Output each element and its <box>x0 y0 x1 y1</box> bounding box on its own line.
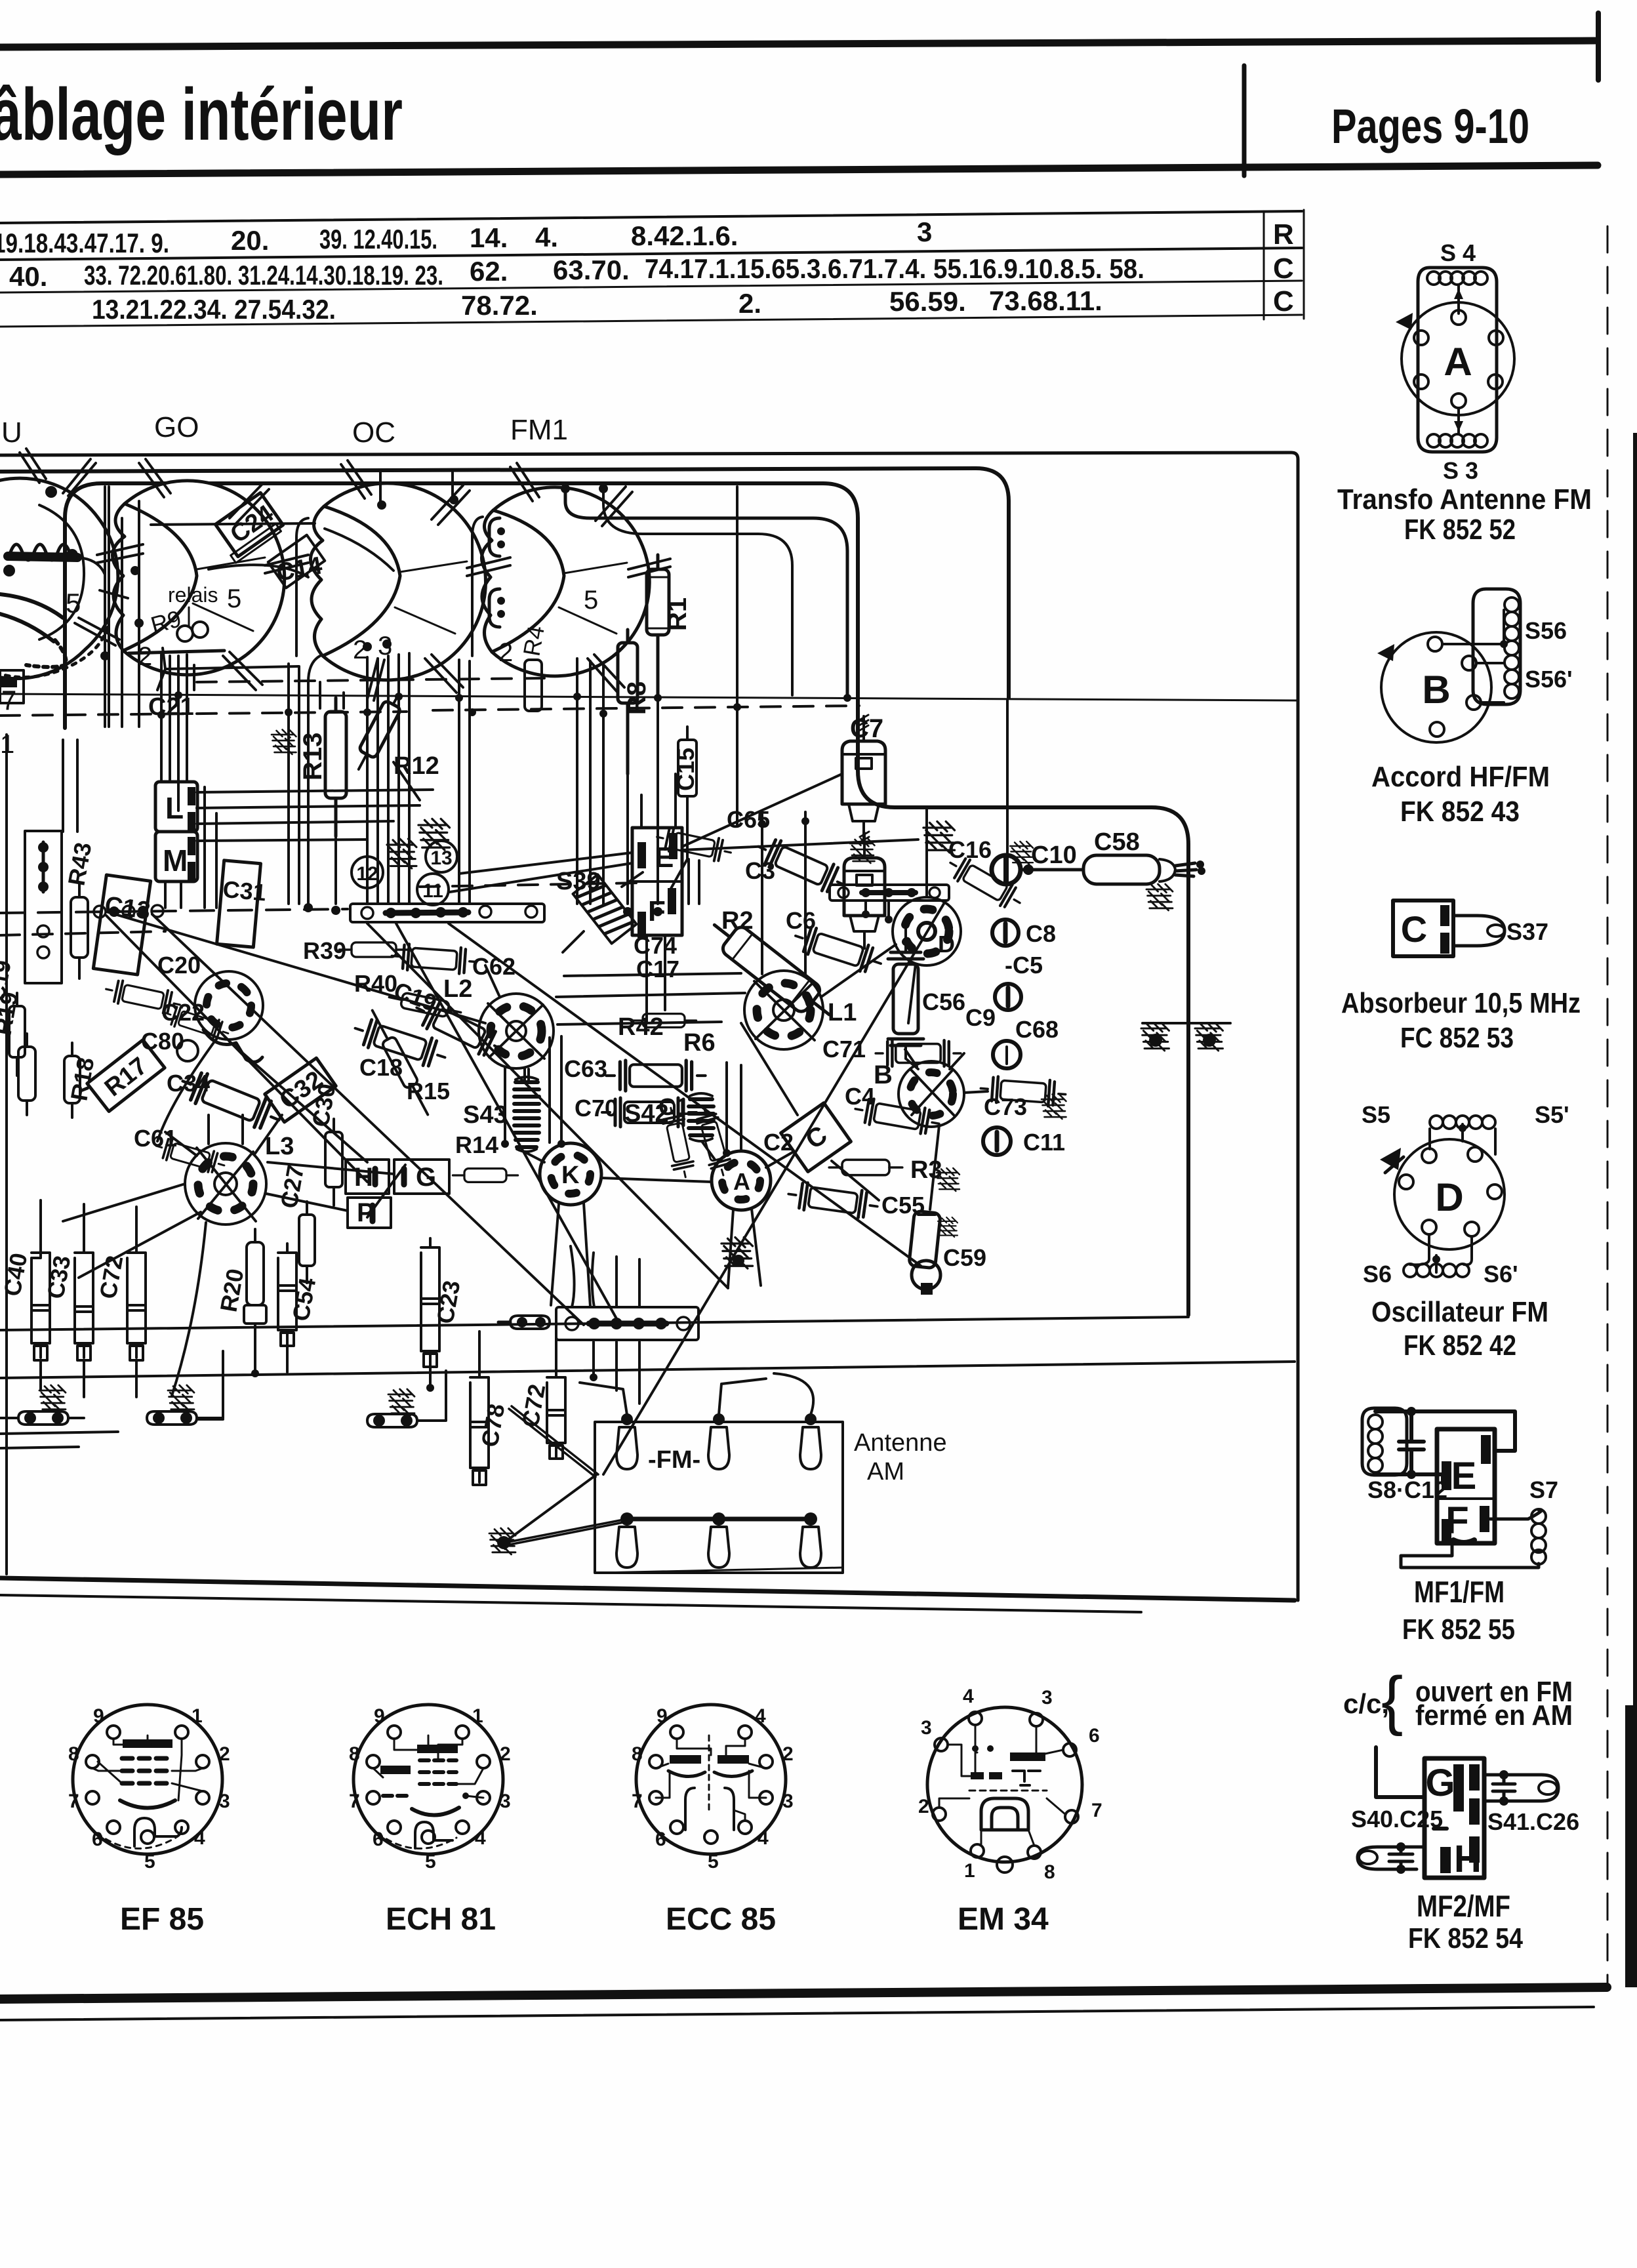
svg-text:62.: 62. <box>470 256 508 287</box>
svg-text:2: 2 <box>498 638 513 667</box>
resistor R18 <box>64 1043 80 1118</box>
svg-text:-C5: -C5 <box>1005 952 1043 979</box>
svg-text:EM 34: EM 34 <box>958 1902 1049 1937</box>
wire lugs row <box>0 1360 136 1418</box>
resistor R20 <box>244 1229 266 1337</box>
ground lug 2 <box>147 1385 197 1425</box>
svg-text:4: 4 <box>758 1827 769 1849</box>
capacitor C78 <box>470 1368 489 1485</box>
svg-text:S40.C25: S40.C25 <box>1351 1806 1443 1833</box>
svg-text:3: 3 <box>500 1791 511 1812</box>
svg-text:11: 11 <box>422 880 443 902</box>
svg-text:2: 2 <box>918 1796 929 1817</box>
svg-text:33. 72.20.61.80. 31.24.14.30.1: 33. 72.20.61.80. 31.24.14.30.18.19. 23. <box>84 260 443 291</box>
selector box L/M <box>155 782 197 881</box>
left terminal board <box>25 831 62 983</box>
capacitor C30 <box>325 1119 342 1205</box>
S3 center tap <box>1457 408 1460 433</box>
svg-text:S41.C26: S41.C26 <box>1487 1808 1579 1835</box>
dashed row mid <box>420 883 643 887</box>
chassis dashed line A <box>197 678 544 682</box>
svg-text:C10: C10 <box>1031 841 1077 869</box>
capacitor C34 <box>177 1066 285 1135</box>
MF2 left lead <box>1358 1847 1425 1869</box>
svg-text:ECC 85: ECC 85 <box>666 1902 776 1937</box>
left strip holes <box>94 905 163 918</box>
wire OC left drop <box>308 656 320 904</box>
wire R1 lead down <box>657 697 659 904</box>
svg-text:14.: 14. <box>470 222 508 253</box>
svg-text:8.42.1.6.: 8.42.1.6. <box>631 220 738 251</box>
table RCC column lines <box>1263 211 1265 319</box>
svg-text:FK 852 54: FK 852 54 <box>1408 1922 1523 1954</box>
pins of D <box>1399 1147 1502 1236</box>
diagonal L2 fan <box>106 912 485 1162</box>
wire FM1 right drops <box>577 658 603 905</box>
capacitor C59 <box>909 1211 941 1295</box>
svg-text:R13: R13 <box>298 733 327 780</box>
socket L3 <box>185 1143 266 1225</box>
wire E drops <box>647 935 665 1023</box>
U inner bar <box>0 678 17 687</box>
svg-text:19.18.43.47.17. 9.: 19.18.43.47.17. 9. <box>0 228 169 258</box>
table row 1 numbers <box>0 216 932 258</box>
svg-text:R: R <box>1273 218 1294 251</box>
resistor R3 <box>829 1160 902 1175</box>
hatch right of E box <box>923 822 955 853</box>
svg-text:L2: L2 <box>443 975 472 1003</box>
antenna plug 3 <box>800 1413 821 1469</box>
resistor R19 <box>18 1034 35 1115</box>
svg-text:20.: 20. <box>231 225 269 256</box>
svg-text:3: 3 <box>219 1791 230 1812</box>
svg-text:C70: C70 <box>575 1095 618 1122</box>
coil S6 bottom of D <box>1404 1264 1469 1277</box>
capacitor C7 electrolytic <box>842 715 885 842</box>
svg-text:relais: relais <box>168 583 218 607</box>
wire C15 lead down <box>686 813 689 859</box>
pages label <box>1331 99 1529 153</box>
svg-text:9: 9 <box>374 1705 385 1727</box>
B lower pin lead <box>1481 701 1504 704</box>
wire antenna double feeder <box>509 1406 598 1477</box>
wire C21 tick <box>193 665 195 690</box>
svg-text:R8: R8 <box>622 681 651 715</box>
wire band drop x1124 <box>736 487 738 825</box>
circled 13 <box>426 841 457 872</box>
ground lug 3 <box>367 1389 417 1427</box>
svg-text:56.59.: 56.59. <box>889 286 966 317</box>
U dotted chain <box>26 640 66 667</box>
U extra paddles <box>0 449 128 682</box>
hatch below R3 <box>937 1168 960 1191</box>
svg-text:{: { <box>1381 1663 1403 1737</box>
absorber C box <box>1393 901 1453 956</box>
antenna mid bar <box>627 1517 811 1522</box>
svg-text:S7: S7 <box>1529 1476 1558 1503</box>
wire D to C56 <box>908 964 916 1023</box>
tuning section GO rotor <box>112 459 308 690</box>
wire L2 to S43 <box>523 1068 526 1080</box>
table line 3 <box>0 281 1302 293</box>
wire B to C59 <box>930 1125 939 1209</box>
wire LM risers <box>205 787 216 908</box>
svg-text:EF 85: EF 85 <box>120 1902 204 1937</box>
capacitor C20 <box>104 978 182 1016</box>
svg-text:3: 3 <box>1041 1687 1053 1709</box>
module B frame <box>1473 589 1520 704</box>
wire A riser <box>727 1063 741 1152</box>
capacitor C58 <box>1021 855 1205 884</box>
pins of B <box>1428 637 1481 737</box>
svg-text:S8·C12: S8·C12 <box>1367 1476 1447 1503</box>
wire B to C73 <box>964 1091 988 1093</box>
U hub dots <box>3 565 15 577</box>
svg-text:39. 12.40.15.: 39. 12.40.15. <box>319 224 437 254</box>
absorber lead loop S37 <box>1453 916 1505 946</box>
hatch under C58 <box>1146 884 1173 910</box>
bottom thick rule <box>0 1987 1607 1999</box>
svg-text:S5: S5 <box>1362 1101 1390 1128</box>
band second line <box>0 468 1009 698</box>
wire L2 drops <box>505 1068 529 1143</box>
label R17 <box>87 1040 165 1111</box>
junction dots <box>100 484 910 1392</box>
chassis line y2088 <box>0 1362 1295 1378</box>
capacitor C10 feedthrough <box>992 855 1021 884</box>
hatch under C7 <box>850 839 875 864</box>
wire L3 to C61 <box>165 1115 282 1156</box>
wire U coil tail <box>77 557 105 575</box>
svg-text:FK 852 55: FK 852 55 <box>1402 1613 1515 1646</box>
band top line + diagram right border <box>0 453 1298 1600</box>
capacitor C62 <box>391 943 477 975</box>
table line 2 <box>0 248 1302 260</box>
svg-text:Accord HF/FM: Accord HF/FM <box>1371 761 1550 793</box>
capacitor C65 <box>655 826 733 864</box>
bottom thin rule <box>0 2007 1594 2020</box>
svg-text:R40: R40 <box>354 970 397 997</box>
svg-text:4.: 4. <box>535 222 558 253</box>
svg-text:Antenne: Antenne <box>854 1429 947 1457</box>
svg-text:13.21.22.34. 27.54.32.: 13.21.22.34. 27.54.32. <box>92 294 336 325</box>
svg-text:1: 1 <box>0 730 14 759</box>
wire C40 riser <box>41 1200 136 1244</box>
resistor R43 <box>71 884 88 979</box>
socket L2 <box>479 994 554 1068</box>
socket D <box>893 897 961 965</box>
resistor R42 <box>631 1014 696 1028</box>
svg-text:U: U <box>1 416 22 449</box>
svg-text:8: 8 <box>1044 1861 1055 1883</box>
svg-text:âblage intérieur: âblage intérieur <box>0 73 403 155</box>
svg-text:R14: R14 <box>455 1131 498 1158</box>
right column dashed border <box>1607 226 1609 1987</box>
svg-text:ECH 81: ECH 81 <box>386 1902 496 1937</box>
svg-text:C8: C8 <box>1026 920 1056 947</box>
capacitor C72b <box>547 1368 565 1459</box>
arrow A <box>1396 313 1413 330</box>
svg-text:5: 5 <box>227 584 241 613</box>
svg-text:C58: C58 <box>1094 828 1140 856</box>
chassis bottom thin line <box>0 1595 1141 1612</box>
svg-text:C17: C17 <box>636 956 679 982</box>
svg-text:B: B <box>874 1061 893 1089</box>
wire B risers <box>905 1049 964 1069</box>
diagonal D strip to antenna <box>603 901 946 1474</box>
svg-text:OC: OC <box>352 416 395 449</box>
capacitor C19 left <box>9 993 25 1076</box>
U section coil lead <box>8 556 77 557</box>
wire OC hook <box>296 518 308 656</box>
svg-text:63.70.: 63.70. <box>553 254 630 285</box>
coil S43 <box>514 1077 539 1152</box>
MF2 right capacitor <box>1493 1775 1515 1801</box>
antenna plug 1 <box>616 1413 637 1469</box>
svg-text:R3: R3 <box>910 1156 942 1184</box>
wire R42 runs <box>556 973 745 1024</box>
tube socket EM34 <box>918 1686 1102 1937</box>
wire relais line <box>209 565 308 577</box>
wire band drop x860 corner <box>565 487 847 695</box>
svg-text:S 4: S 4 <box>1440 239 1476 266</box>
box P <box>348 1198 391 1228</box>
svg-text:6: 6 <box>655 1829 666 1850</box>
wire K to A <box>601 1178 712 1182</box>
svg-text:74.17.1.15.65.3.6.71.7.4. 55.1: 74.17.1.15.65.3.6.71.7.4. 55.16.9.10.8.5… <box>645 253 1144 284</box>
wire top drop x580 <box>380 471 453 505</box>
tube socket ECH81 <box>349 1705 511 1937</box>
svg-text:FC 852 53: FC 852 53 <box>1400 1022 1514 1054</box>
wire OC drop bundle <box>367 653 409 904</box>
svg-text:AM: AM <box>867 1458 904 1486</box>
wire mid horizontals above LM <box>197 790 433 841</box>
svg-text:78.72.: 78.72. <box>461 290 538 321</box>
capacitor C11 ring <box>983 1127 1011 1155</box>
resistor R12 tilted <box>350 690 407 774</box>
svg-text:S6': S6' <box>1484 1261 1518 1287</box>
svg-text:FK 852 52: FK 852 52 <box>1404 514 1516 546</box>
wire S39 leads <box>563 872 643 952</box>
hatch right of C73 <box>1041 1095 1066 1120</box>
svg-text:FK 852 43: FK 852 43 <box>1400 796 1520 828</box>
chassis dashed line B <box>0 712 407 716</box>
circled 11 <box>417 874 449 905</box>
MF1 coil <box>1368 1415 1383 1472</box>
U wire left thick <box>0 594 63 641</box>
wire K drops <box>551 1203 590 1306</box>
svg-text:C7: C7 <box>850 714 883 743</box>
wire left edge long drop <box>5 735 8 1574</box>
capacitor C16 <box>944 852 1026 914</box>
wire connector strip drops <box>594 1342 639 1404</box>
svg-text:4: 4 <box>755 1705 766 1727</box>
strip D near socket <box>830 885 949 901</box>
svg-text:S6: S6 <box>1363 1261 1392 1287</box>
wire lug row right <box>197 1371 446 1421</box>
coil S3 <box>1427 434 1487 447</box>
svg-text:C71: C71 <box>822 1036 866 1063</box>
capacitor C9 ring <box>995 984 1021 1010</box>
wire E right run <box>682 840 918 850</box>
wire R12 lead <box>394 762 420 800</box>
svg-text:MF2/MF: MF2/MF <box>1417 1889 1510 1923</box>
svg-text:5: 5 <box>708 1851 719 1873</box>
capacitor C24 plate <box>211 493 285 563</box>
GO line under <box>129 651 224 653</box>
MF1 right coil wire <box>1401 1510 1541 1568</box>
socket K <box>540 1143 601 1205</box>
socket AM converter <box>195 971 263 1062</box>
wire R8 lead down <box>626 774 629 904</box>
hatch near 12/13 <box>387 839 416 868</box>
wire A drops <box>728 1209 761 1287</box>
hatch near C59 <box>938 1217 958 1237</box>
capacitor C68 ring <box>993 1041 1021 1068</box>
wire C15 lead <box>669 859 687 892</box>
resistor R40 <box>388 990 462 1020</box>
chassis bottom thick line <box>0 1578 1295 1600</box>
svg-text:C: C <box>1273 285 1294 317</box>
svg-text:5: 5 <box>584 586 598 615</box>
OC contact dots <box>363 642 372 651</box>
capacitor C33 <box>75 1244 93 1360</box>
svg-text:R15: R15 <box>407 1078 450 1104</box>
wire left outline drop <box>105 487 109 727</box>
box E/F <box>632 828 682 938</box>
capacitor C55 <box>786 1181 879 1220</box>
pins of A <box>1414 310 1503 408</box>
svg-text:S56': S56' <box>1525 666 1573 693</box>
capacitor C54 <box>278 1244 296 1346</box>
svg-text:6: 6 <box>1089 1725 1100 1747</box>
capacitor C70 <box>602 1098 697 1127</box>
wire G to L3 <box>266 1162 394 1211</box>
strip feeder curves <box>571 1246 639 1307</box>
wire left box <box>0 670 24 703</box>
capacitor electrolytic 2 <box>844 832 885 948</box>
svg-text:G: G <box>1425 1762 1455 1804</box>
arrow D <box>1380 1148 1401 1170</box>
svg-text:6: 6 <box>373 1829 384 1850</box>
wire C62 to L2 <box>485 965 500 997</box>
second rule <box>0 165 1598 174</box>
coil S4 <box>1427 272 1487 285</box>
circled 12 <box>352 857 383 888</box>
central terminal strip <box>350 904 544 922</box>
capacitor C71 <box>876 1040 961 1066</box>
svg-text:40.: 40. <box>9 261 47 292</box>
svg-text:8: 8 <box>349 1743 360 1765</box>
svg-text:C59: C59 <box>943 1244 986 1271</box>
capacitor C19 right <box>411 995 508 1063</box>
wire mid risers x1050 <box>689 859 699 904</box>
table top line <box>0 211 1302 223</box>
svg-text:13: 13 <box>430 847 452 869</box>
resistor R8 vertical <box>618 630 651 774</box>
svg-text:9: 9 <box>93 1705 104 1727</box>
bottom connector strip <box>556 1307 698 1340</box>
wire antenna feeds <box>580 1373 813 1415</box>
wire C x-braces <box>741 1023 879 1200</box>
coil S5 top of D <box>1430 1116 1495 1129</box>
wire A to C2 <box>766 1152 794 1167</box>
left strip dashed row <box>0 909 348 913</box>
capacitor C8 ring <box>992 920 1019 946</box>
svg-text:C63: C63 <box>564 1055 607 1082</box>
wire K riser pair <box>550 1036 561 1143</box>
wire L3 risers <box>209 1115 243 1144</box>
svg-text:R1: R1 <box>663 597 692 631</box>
wire S43 to K <box>527 1153 544 1162</box>
svg-text:3: 3 <box>921 1717 932 1739</box>
resistor R14 <box>453 1169 517 1183</box>
svg-text:B: B <box>1422 668 1450 712</box>
diagonal mid to connector <box>396 923 618 1321</box>
svg-text:1: 1 <box>964 1860 975 1882</box>
tuning section FM1 rotor <box>481 463 670 693</box>
svg-text:7: 7 <box>1 685 16 716</box>
B top pin lead to coil <box>1442 610 1504 644</box>
resistor R4 body <box>525 660 542 711</box>
svg-text:L1: L1 <box>828 999 857 1026</box>
svg-text:S37: S37 <box>1506 918 1548 945</box>
MF2 body <box>1425 1758 1484 1878</box>
svg-text:2: 2 <box>782 1743 794 1765</box>
capacitor C40 <box>31 1244 50 1360</box>
svg-text:D: D <box>938 931 955 958</box>
wire GO to strip <box>165 883 181 908</box>
tuning section U rotor <box>0 449 143 716</box>
hatch antenna ground <box>489 1528 515 1554</box>
coil S42 <box>689 1093 714 1141</box>
wire L1 risers <box>762 812 805 976</box>
antenna terminal box <box>595 1422 843 1573</box>
svg-text:R6: R6 <box>683 1029 716 1057</box>
capacitor C4 <box>853 1096 942 1137</box>
S4 center tap <box>1457 286 1460 314</box>
svg-text:fermé en AM: fermé en AM <box>1415 1699 1573 1731</box>
capacitor C15 vertical <box>672 727 699 813</box>
tuning section OC rotor <box>148 460 510 721</box>
MF1 right coil <box>1531 1509 1546 1564</box>
svg-text:2: 2 <box>500 1743 511 1765</box>
antenna plug 5 <box>708 1512 729 1568</box>
svg-text:C18: C18 <box>359 1054 403 1081</box>
capacitor C18 <box>351 1015 450 1071</box>
capacitor C2 <box>693 1104 733 1179</box>
capacitor plate C13 <box>93 875 154 975</box>
tube socket ECC85 <box>632 1705 794 1937</box>
chassis inner outline top <box>65 483 1188 1315</box>
svg-text:FK 852 42: FK 852 42 <box>1404 1329 1516 1362</box>
svg-text:C74: C74 <box>634 932 677 959</box>
svg-text:S5': S5' <box>1535 1101 1569 1128</box>
diagonal to C59 <box>449 923 921 1266</box>
coil S39 hatched <box>573 874 637 943</box>
wire bottom long diagonal <box>367 923 728 1288</box>
svg-text:MF1/FM: MF1/FM <box>1414 1575 1505 1609</box>
wire C56 to B <box>906 1059 918 1069</box>
capacitor C6 <box>791 923 885 977</box>
MF1 top wire <box>1375 1411 1515 1451</box>
MF2 right lead <box>1484 1775 1558 1801</box>
svg-text:Oscillateur FM: Oscillateur FM <box>1371 1296 1548 1328</box>
MF1 body <box>1437 1429 1495 1543</box>
antenna plug 4 <box>616 1512 637 1568</box>
right ground pair wire <box>1142 1022 1230 1024</box>
box H <box>346 1160 389 1194</box>
